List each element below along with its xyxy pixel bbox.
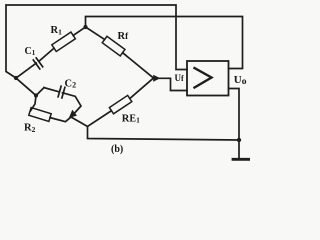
capacitor C2	[58, 86, 65, 98]
svg-text:R2: R2	[24, 123, 36, 134]
wire R2 to junction J	[50, 117, 71, 122]
ground	[233, 158, 250, 161]
junction J arrowhead	[69, 110, 77, 118]
wire B to Rf	[86, 27, 105, 40]
wire C2 rail right	[63, 93, 82, 117]
wire top node B to amp upper output	[86, 17, 243, 69]
wire A to C1	[16, 63, 36, 78]
resistor Rf	[102, 36, 125, 56]
svg-text:C2: C2	[65, 78, 77, 89]
wire junction J to bottom node D	[71, 117, 88, 127]
loop left vertex junction dot	[34, 93, 38, 97]
wire top-left outer loop (node A to amp upper input)	[6, 5, 187, 78]
svg-text:RE1: RE1	[122, 113, 140, 124]
resistor RE1	[109, 95, 131, 113]
wire R1 to node B	[73, 27, 85, 35]
wire Rf to node C	[123, 53, 154, 78]
svg-text:Uf: Uf	[175, 73, 185, 83]
node B junction dot	[83, 25, 87, 29]
node C arrowhead	[153, 75, 160, 82]
resistor R2	[29, 108, 51, 122]
svg-text:Uo: Uo	[234, 74, 247, 87]
bottom-right junction dot	[237, 138, 241, 142]
wire node C to amp lower input	[160, 78, 188, 90]
wire amp lower output to bottom rail	[229, 89, 240, 141]
svg-text:Rf: Rf	[118, 31, 130, 42]
node A junction dot	[14, 76, 18, 80]
wire C2 rail left	[44, 88, 59, 92]
svg-text:(b): (b)	[111, 144, 123, 155]
wire loop left vertex up to C2 rail	[36, 88, 44, 96]
wire RE1 to node C	[130, 78, 154, 99]
wire bottom rail (node D to right)	[88, 127, 240, 141]
svg-text:R1: R1	[51, 25, 63, 36]
wire ground stem	[238, 140, 240, 159]
op-amp box U1	[187, 61, 229, 96]
wire C1 to R1	[39, 48, 54, 61]
wire D to RE1	[88, 111, 112, 127]
wire loop left vertex down to R2	[31, 96, 37, 111]
resistor R1	[52, 32, 76, 51]
op-amp gain symbol	[195, 68, 212, 88]
capacitor C1	[33, 58, 42, 69]
wire A to parallel-loop left vertex	[16, 78, 36, 96]
